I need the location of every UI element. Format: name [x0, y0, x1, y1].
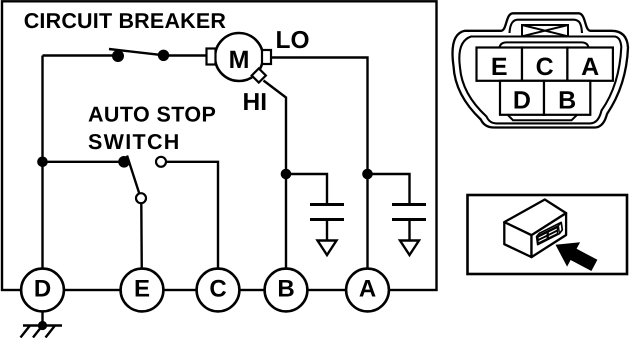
connector collar ridge — [500, 42, 589, 47]
capacitor C2 ground lead — [408, 220, 410, 241]
svg-text:E: E — [491, 53, 508, 81]
capacitor C1 ground lead — [326, 220, 328, 241]
node junction dot on A line — [362, 169, 373, 180]
relay module left face — [504, 222, 531, 257]
node junction dot on left branch — [37, 157, 48, 168]
wire: LO to A vertical — [271, 58, 368, 291]
circuit breaker contact dot right — [158, 50, 169, 61]
relay connector block front-top edge — [537, 226, 559, 237]
circuit breaker contact dot left — [112, 50, 124, 62]
svg-text:HI: HI — [243, 89, 268, 116]
wire: breaker right contact to motor — [164, 54, 209, 56]
svg-text:SWITCH: SWITCH — [88, 130, 181, 154]
ground lead from D — [41, 311, 43, 325]
relay connector block cells — [538, 228, 557, 244]
svg-text:C: C — [209, 276, 226, 303]
svg-text:A: A — [359, 276, 376, 303]
connector inner outline — [459, 37, 621, 124]
svg-text:LO: LO — [276, 27, 310, 54]
svg-text:C: C — [536, 53, 554, 81]
node junction dot on B line — [281, 169, 292, 180]
connector outer outline — [453, 13, 628, 127]
capacitor C2 lead — [368, 174, 410, 204]
relay connector block end edges — [558, 222, 561, 225]
capacitor C1 plates — [310, 203, 344, 206]
ground junction dot — [38, 321, 47, 330]
svg-text:B: B — [277, 276, 294, 303]
connector cavity E — [477, 48, 523, 81]
auto stop switch arm — [127, 156, 139, 194]
wire: auto stop switch feed — [43, 161, 125, 163]
capacitor C1 lead — [286, 174, 327, 204]
motor right terminal (LO) — [262, 50, 271, 64]
wire: right contact to C — [166, 162, 218, 290]
relay module top face — [504, 200, 566, 236]
circuit breaker arm — [109, 49, 163, 55]
wire: lower contact to E — [140, 203, 143, 290]
ground bar — [23, 324, 62, 327]
svg-text:B: B — [558, 87, 576, 115]
connector cavity A — [567, 48, 613, 81]
svg-text:A: A — [581, 53, 599, 81]
auto stop switch lower contact (open) — [136, 193, 146, 203]
connector lower tray — [508, 115, 578, 121]
relay connector block silhouette — [537, 222, 563, 244]
relay locator arrow — [556, 242, 598, 271]
connector cavity B — [544, 81, 590, 115]
motor M circle — [215, 33, 263, 81]
connector keying crossed box — [522, 25, 568, 36]
motor left terminal — [207, 49, 216, 65]
terminal A — [346, 269, 389, 312]
auto stop switch common dot — [118, 156, 130, 168]
svg-text:M: M — [229, 46, 250, 74]
ground hatch 1 — [21, 326, 31, 338]
ground hatch 2 — [33, 326, 43, 338]
connector cavity D — [500, 81, 544, 115]
terminal C — [197, 269, 240, 312]
capacitor C1 ground arrow — [318, 241, 337, 256]
ground hatch 3 — [46, 326, 56, 338]
svg-text:D: D — [34, 276, 51, 303]
relay module right face — [532, 213, 567, 257]
capacitor C2 ground arrow — [400, 241, 419, 256]
terminal E — [121, 269, 164, 312]
svg-text:CIRCUIT BREAKER: CIRCUIT BREAKER — [24, 9, 227, 33]
connector cavity C — [522, 48, 567, 81]
terminal D — [21, 269, 64, 312]
main schematic frame — [2, 1, 437, 290]
svg-text:AUTO STOP: AUTO STOP — [88, 103, 216, 127]
wire: HI diagonal down to B vertical — [264, 81, 287, 291]
terminal B — [265, 269, 308, 312]
connector tab inner outline — [510, 20, 583, 33]
motor HI terminal (rotated square) — [252, 68, 266, 82]
capacitor C2 plates — [392, 203, 426, 206]
svg-text:E: E — [134, 276, 150, 303]
svg-text:D: D — [513, 87, 531, 115]
auto stop switch right contact (open) — [156, 157, 166, 167]
relay locator box — [468, 195, 628, 274]
wire: top horizontal to breaker left contact — [43, 54, 119, 56]
wire: left branch vertical (breaker/auto-stop/D bus) — [41, 56, 43, 291]
